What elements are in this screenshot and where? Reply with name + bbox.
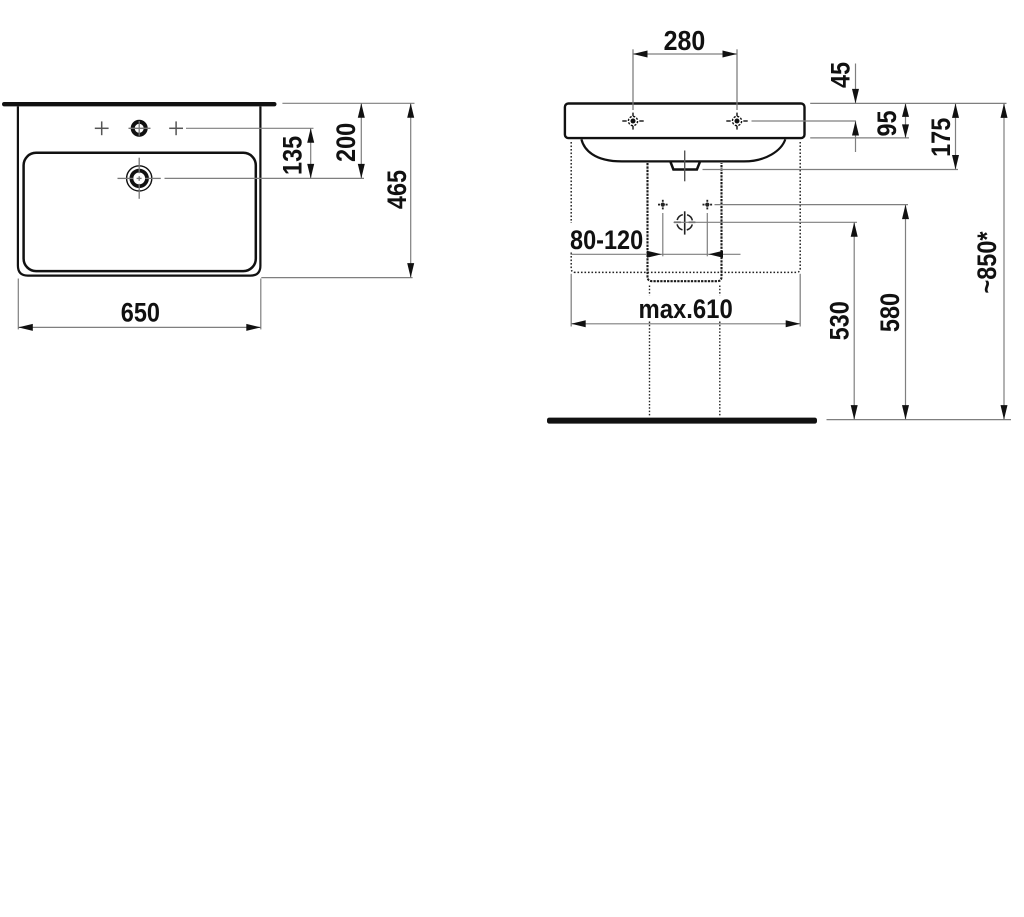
svg-text:45: 45: [826, 62, 856, 88]
svg-text:80-120: 80-120: [570, 225, 643, 255]
svg-text:530: 530: [825, 301, 855, 340]
svg-text:650: 650: [121, 298, 160, 328]
svg-text:580: 580: [876, 293, 906, 332]
svg-text:200: 200: [332, 123, 362, 162]
svg-text:280: 280: [664, 25, 706, 57]
svg-text:95: 95: [873, 110, 903, 136]
svg-text:465: 465: [383, 170, 413, 209]
svg-text:175: 175: [926, 118, 956, 157]
svg-text:135: 135: [278, 136, 308, 175]
svg-text:max.610: max.610: [638, 295, 732, 325]
svg-text:~850*: ~850*: [972, 231, 1002, 293]
